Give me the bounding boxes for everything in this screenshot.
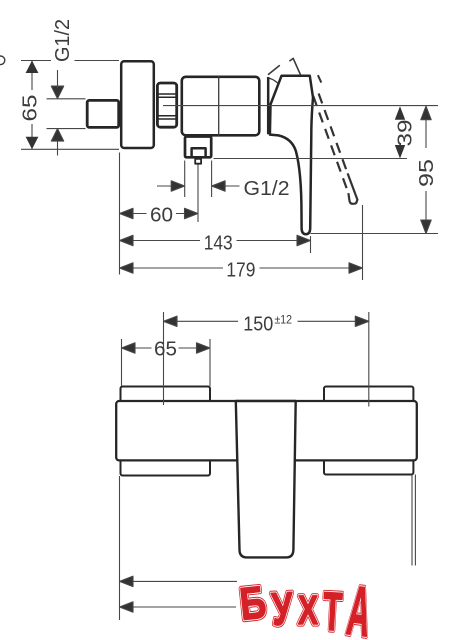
extension lines front right (double) xyxy=(412,475,415,566)
handle cartridge edge xyxy=(267,77,270,134)
svg-text:143: 143 xyxy=(204,233,233,255)
svg-text:Т: Т xyxy=(321,582,343,640)
body bar front xyxy=(116,401,417,460)
svg-text:65: 65 xyxy=(20,95,42,122)
handle open-position dashed line right xyxy=(319,94,348,174)
dimension 65 front extension lines xyxy=(122,339,211,386)
dimension 143 xyxy=(120,235,201,245)
svg-text:150: 150 xyxy=(243,314,273,336)
left escutcheon front top tab xyxy=(121,387,211,407)
extension line nipple bottom xyxy=(47,128,86,130)
escutcheon (side) xyxy=(121,61,154,148)
reference line handle bottom xyxy=(311,233,439,235)
reference line outlet bottom xyxy=(214,158,408,160)
dimension 95 xyxy=(421,106,431,233)
svg-text:179: 179 xyxy=(226,260,255,282)
svg-text:Х: Х xyxy=(298,587,318,633)
dimension 65 line xyxy=(31,61,33,150)
svg-text:Б: Б xyxy=(237,576,268,629)
bottom dimension row 2 (cut by watermark) xyxy=(120,602,240,612)
body split line xyxy=(218,76,220,136)
extension line outlet right xyxy=(211,161,213,198)
mixer body xyxy=(182,77,259,136)
bottom dimension row 1 (cut by watermark) xyxy=(120,576,238,586)
dimension 150+-12 xyxy=(164,316,239,326)
left escutcheon centerline xyxy=(163,312,165,405)
handle raised phantom line right xyxy=(289,58,300,74)
G1/2 label top arrow xyxy=(51,70,63,99)
svg-text:65: 65 xyxy=(154,339,177,361)
watermark БУХТА xyxy=(237,571,375,640)
extension line front left xyxy=(119,476,121,620)
handle open-position tip xyxy=(348,173,358,203)
open handle upper dash xyxy=(318,75,321,82)
dimension 60 xyxy=(120,208,147,218)
right escutcheon front bottom tab xyxy=(324,455,413,475)
svg-text:±12: ±12 xyxy=(275,313,293,327)
handle open-position dashed line left xyxy=(313,96,348,193)
handle raised phantom line left xyxy=(268,65,280,75)
wall nipple (G1/2 connection) xyxy=(87,100,119,127)
nut facet lines xyxy=(157,94,177,119)
svg-text:G1/2: G1/2 xyxy=(52,19,74,62)
extension line escutcheon top xyxy=(21,60,119,62)
extension line nipple top xyxy=(47,98,86,100)
left escutcheon front bottom tab xyxy=(121,455,211,476)
handle front xyxy=(236,401,296,557)
hex nut xyxy=(157,83,176,127)
outlet tip xyxy=(195,159,201,164)
handle pivot arc xyxy=(269,78,280,85)
outlet nut xyxy=(192,148,206,157)
centerline through body extending right xyxy=(163,105,438,107)
watermark halo xyxy=(235,573,371,640)
svg-text:G1/2: G1/2 xyxy=(244,178,290,200)
extension line escutcheon bottom xyxy=(21,148,119,150)
dimension G1/2 outlet row arrows xyxy=(157,181,185,191)
extension line open handle tip xyxy=(362,205,364,280)
G1/2 label bottom arrow xyxy=(51,129,63,156)
svg-text:39: 39 xyxy=(395,120,417,147)
dimension 179 xyxy=(120,263,224,273)
dimension 65 arrows xyxy=(26,61,39,74)
svg-text:60: 60 xyxy=(150,205,173,227)
shower outlet collar xyxy=(185,137,211,158)
extension line outlet centerline xyxy=(197,165,199,223)
right escutcheon centerline xyxy=(368,312,370,407)
handle (closed position, solid) xyxy=(270,76,313,234)
svg-text:У: У xyxy=(270,582,295,635)
dimension 39 xyxy=(395,106,405,120)
right escutcheon front top tab xyxy=(324,387,413,407)
dimension 65 front xyxy=(122,343,152,353)
svg-text:95: 95 xyxy=(416,159,438,187)
cropped circle marker at left edge xyxy=(0,56,5,65)
extension line handle tip xyxy=(310,236,312,253)
extension line escutcheon left (wall) xyxy=(119,153,121,275)
extension line outlet left xyxy=(184,161,186,198)
